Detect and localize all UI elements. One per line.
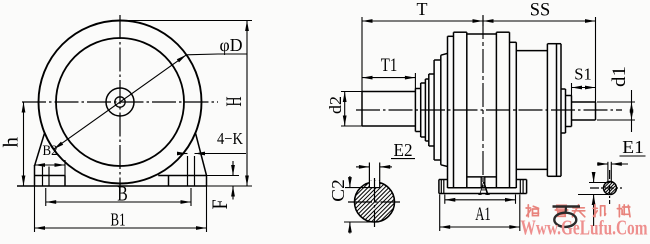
svg-text:d1: d1 — [609, 66, 630, 87]
svg-text:H: H — [221, 96, 246, 106]
svg-text:C2: C2 — [328, 179, 348, 202]
svg-text:φD: φD — [220, 35, 243, 55]
svg-text:B1: B1 — [111, 210, 126, 230]
svg-text:B: B — [117, 182, 128, 206]
svg-text:SS: SS — [530, 0, 551, 21]
svg-text:T1: T1 — [381, 55, 398, 76]
svg-text:Www.GeLufu.Com: Www.GeLufu.Com — [521, 216, 648, 240]
svg-text:F: F — [207, 199, 232, 209]
svg-text:E1: E1 — [622, 137, 644, 157]
svg-text:E2: E2 — [394, 140, 413, 160]
svg-text:B2: B2 — [43, 143, 58, 159]
svg-text:h: h — [0, 137, 23, 148]
svg-text:A: A — [478, 178, 490, 200]
svg-text:T: T — [417, 0, 428, 19]
svg-text:d2: d2 — [326, 96, 345, 114]
svg-text:A1: A1 — [475, 204, 491, 225]
svg-text:S1: S1 — [574, 65, 592, 84]
svg-text:4−K: 4−K — [217, 129, 243, 148]
